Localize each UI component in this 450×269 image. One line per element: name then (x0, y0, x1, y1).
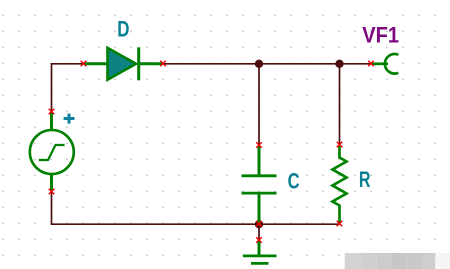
resistor R body (333, 146, 347, 223)
watermark band 3 (377, 253, 392, 269)
watermark band 4 (391, 253, 407, 269)
ground symbol (243, 241, 277, 264)
pin marker diode cathode (160, 61, 166, 67)
svg-text:VF1: VF1 (362, 23, 399, 48)
watermark band 6 (422, 253, 435, 269)
wire from top node down to resistor top pin (339, 64, 341, 145)
pin marker source minus (49, 189, 55, 195)
pin marker capacitor top (256, 142, 262, 148)
svg-text:D: D (117, 17, 129, 42)
wire from source minus pin down and right to resistor bottom pin (52, 192, 340, 225)
watermark band 5 (407, 253, 422, 269)
pin marker resistor bottom (337, 221, 343, 227)
wire from diode cathode to voltage probe pin (163, 63, 371, 65)
node junction at capacitor bottom / ground (255, 220, 263, 228)
wire from source plus pin up and right to diode anode (52, 64, 84, 112)
pin marker capacitor bottom (256, 221, 262, 227)
pin marker diode anode (81, 61, 87, 67)
pin marker resistor top (337, 142, 343, 148)
voltage probe VF1 body (372, 54, 398, 74)
diode D body (84, 47, 162, 80)
node junction at resistor top branch (335, 60, 343, 68)
watermark band 7 (435, 253, 450, 269)
wire from bottom node down to ground pin (258, 224, 260, 240)
svg-text:C: C (288, 168, 300, 193)
node junction at capacitor top branch (255, 60, 263, 68)
voltage source plus sign (64, 114, 75, 124)
svg-text:R: R (359, 167, 371, 192)
pin marker source plus (49, 109, 55, 115)
wire from top node down to capacitor top pin (258, 64, 260, 145)
pin marker ground (256, 237, 262, 243)
watermark band 1 (345, 253, 362, 269)
pin marker probe (368, 61, 374, 67)
voltage source VS1 body (30, 112, 74, 191)
capacitor C body (242, 146, 277, 224)
watermark band 2 (362, 253, 377, 269)
